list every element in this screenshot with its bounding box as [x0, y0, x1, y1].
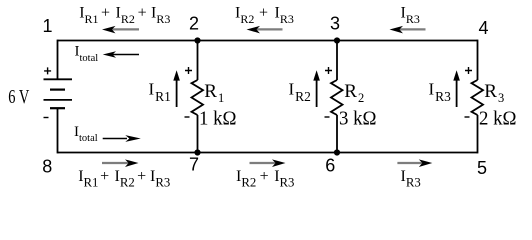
- svg-text:+: +: [100, 168, 109, 185]
- svg-text:+: +: [137, 168, 146, 185]
- svg-text:3: 3: [330, 14, 340, 34]
- svg-text:+: +: [260, 168, 269, 185]
- svg-text:4: 4: [478, 18, 488, 38]
- svg-text:+: +: [259, 5, 268, 22]
- svg-text:1: 1: [42, 16, 52, 36]
- svg-text:2 kΩ: 2 kΩ: [479, 109, 517, 130]
- svg-text:6 V: 6 V: [8, 87, 29, 108]
- svg-text:+: +: [138, 5, 147, 22]
- svg-text:6: 6: [325, 156, 335, 176]
- svg-text:5: 5: [477, 158, 487, 178]
- svg-text:+: +: [101, 5, 110, 22]
- svg-text:7: 7: [189, 155, 199, 175]
- svg-text:8: 8: [42, 157, 52, 177]
- svg-text:2: 2: [189, 14, 199, 34]
- svg-text:3 kΩ: 3 kΩ: [339, 109, 377, 130]
- svg-text:1 kΩ: 1 kΩ: [199, 109, 237, 130]
